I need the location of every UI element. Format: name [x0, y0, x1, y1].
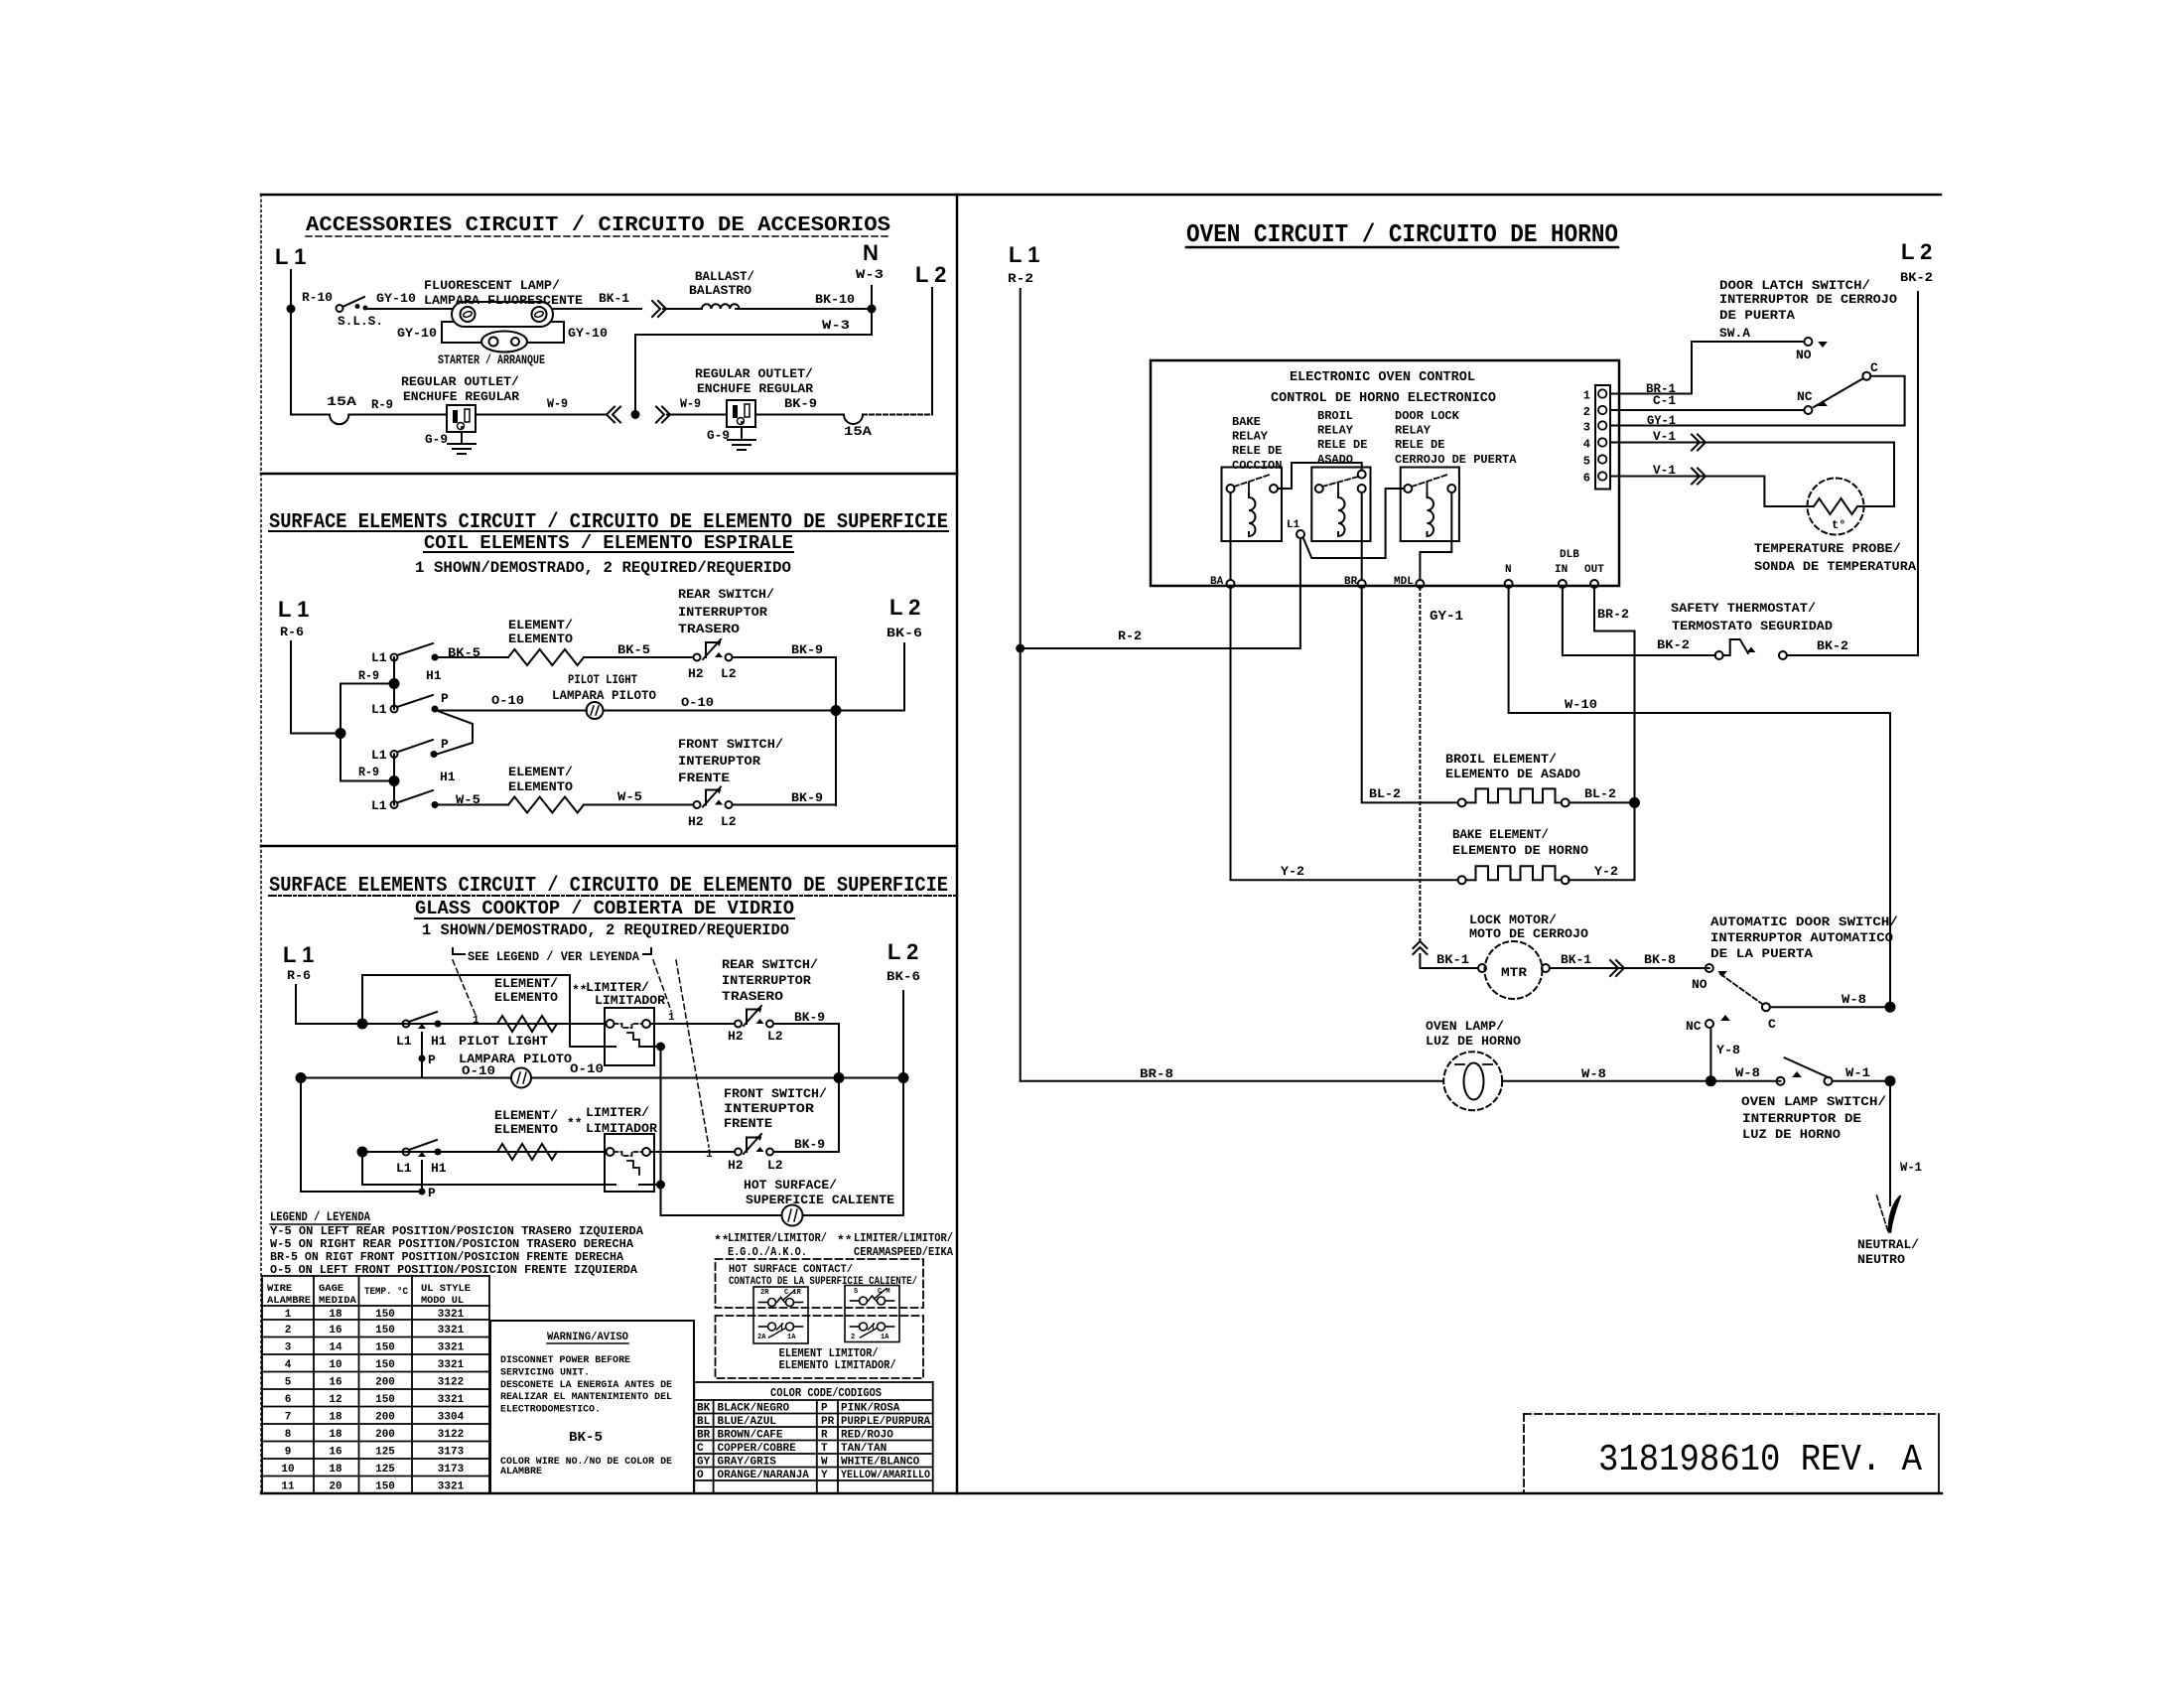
- frame bottom border: [261, 1492, 1942, 1495]
- svg-text:INTERRUPTOR: INTERRUPTOR: [722, 973, 811, 988]
- svg-text:L2: L2: [721, 666, 737, 681]
- svg-text:3321: 3321: [438, 1309, 465, 1321]
- svg-text:CONTROL DE HORNO ELECTRONICO: CONTROL DE HORNO ELECTRONICO: [1271, 391, 1496, 406]
- svg-text:FLUORESCENT LAMP/: FLUORESCENT LAMP/: [424, 278, 560, 293]
- wire neutral drop: [1889, 1081, 1891, 1205]
- svg-text:BL-2: BL-2: [1369, 786, 1401, 801]
- wire broil element to BR-2 bus: [1570, 801, 1635, 803]
- element resistor front coil: [508, 797, 584, 813]
- svg-text:H1: H1: [431, 1034, 447, 1049]
- svg-text:L 2: L 2: [887, 939, 918, 964]
- door latch NO terminal: [1804, 338, 1812, 346]
- fuse 15A left: [330, 415, 348, 425]
- starter ellipse: [481, 332, 527, 352]
- svg-text:MTR: MTR: [1501, 965, 1527, 980]
- svg-text:7: 7: [285, 1411, 292, 1423]
- junction bus pilot box2: [831, 705, 842, 716]
- door latch NC terminal: [1804, 406, 1812, 414]
- svg-text:200: 200: [375, 1376, 395, 1388]
- svg-text:FRENTE: FRENTE: [724, 1116, 772, 1131]
- svg-text:L2: L2: [721, 814, 737, 829]
- svg-text:1: 1: [706, 1149, 713, 1161]
- svg-text:Y-2: Y-2: [1281, 864, 1304, 879]
- wire BR-1 pin1 to SW.A: [1610, 342, 1805, 394]
- svg-text:SEE LEGEND / VER LEYENDA: SEE LEGEND / VER LEYENDA: [468, 949, 639, 964]
- svg-text:GY-10: GY-10: [568, 326, 608, 341]
- svg-text:DLB: DLB: [1560, 549, 1579, 561]
- chevrons V-1 pin4: [1692, 435, 1700, 451]
- svg-text:TRASERO: TRASERO: [678, 622, 740, 636]
- wire C-1 pin2 to NC: [1610, 409, 1805, 411]
- svg-text:W-1: W-1: [1845, 1065, 1870, 1080]
- wire R-2 L1 to relay feed: [1021, 538, 1300, 648]
- junction limiter1 aux: [656, 1043, 665, 1052]
- wire L1 feed jog to door lock relay: [1303, 489, 1405, 558]
- junction switch upper: [389, 678, 400, 689]
- wire GY-1 dotted MDL to lock motor: [1419, 588, 1421, 941]
- svg-text:SONDA DE TEMPERATURA: SONDA DE TEMPERATURA: [1754, 559, 1916, 574]
- oven lamp: [1443, 1052, 1502, 1110]
- svg-text:L1: L1: [396, 1034, 412, 1049]
- svg-text:L 2: L 2: [1901, 239, 1932, 264]
- wire element2 to front switch: [584, 804, 693, 806]
- wire R-9 lower: [341, 734, 394, 781]
- title underline: [306, 235, 890, 237]
- svg-text:20: 20: [329, 1480, 341, 1492]
- wire V-1 pin6 to probe: [1610, 477, 1813, 507]
- svg-text:REGULAR OUTLET/: REGULAR OUTLET/: [401, 374, 519, 389]
- front switch symbol box2: [694, 801, 701, 808]
- switch1 glass L1-H1: [403, 1021, 410, 1028]
- svg-text:DE PUERTA: DE PUERTA: [1719, 308, 1795, 323]
- wire L2 drop box1: [931, 288, 933, 415]
- svg-text:10: 10: [329, 1359, 341, 1371]
- svg-text:ELECTRONIC OVEN CONTROL: ELECTRONIC OVEN CONTROL: [1290, 370, 1475, 385]
- wire limiter2 to front switch: [650, 1151, 735, 1153]
- svg-text:L1: L1: [371, 650, 387, 665]
- svg-text:GLASS COOKTOP / COBIERTA DE VI: GLASS COOKTOP / COBIERTA DE VIDRIO: [415, 898, 794, 919]
- svg-text:COCCION: COCCION: [1232, 459, 1282, 473]
- frame center divider: [956, 195, 959, 1493]
- svg-text:3: 3: [1583, 421, 1590, 435]
- wire probe right drop: [1858, 443, 1894, 507]
- svg-text:18: 18: [329, 1429, 342, 1441]
- electronic oven control box: [1151, 360, 1619, 586]
- svg-text:BAKE ELEMENT/: BAKE ELEMENT/: [1452, 827, 1549, 842]
- rear switch symbol box3: [735, 1021, 742, 1028]
- svg-text:R-9: R-9: [358, 765, 379, 779]
- svg-text:12: 12: [329, 1394, 341, 1406]
- svg-text:INTERRUPTOR AUTOMATICO: INTERRUPTOR AUTOMATICO: [1710, 930, 1893, 945]
- switch L1-H1 rear (coil): [391, 654, 398, 661]
- svg-text:BK-6: BK-6: [887, 626, 922, 640]
- svg-text:2R: 2R: [760, 1289, 769, 1297]
- limiter 2 box: [605, 1134, 654, 1192]
- svg-text:P: P: [441, 691, 449, 706]
- svg-text:INTERUPTOR: INTERUPTOR: [678, 754, 760, 769]
- hot surface contact dashed box: [716, 1259, 924, 1308]
- svg-text:18: 18: [329, 1411, 342, 1423]
- element limitor contact right: [851, 1326, 860, 1328]
- svg-text:WIRE: WIRE: [267, 1283, 292, 1295]
- wire gauge table: [262, 1275, 489, 1277]
- svg-text:R-9: R-9: [371, 397, 393, 412]
- svg-text:DISCONNET POWER BEFORE: DISCONNET POWER BEFORE: [500, 1354, 630, 1366]
- svg-text:W-9: W-9: [547, 396, 568, 411]
- wire pilot junction to L2 drop: [836, 710, 904, 712]
- wire chevron to ballast: [663, 308, 697, 310]
- svg-text:18: 18: [329, 1309, 342, 1321]
- svg-text:ELEMENTO DE HORNO: ELEMENTO DE HORNO: [1452, 843, 1588, 858]
- svg-text:BALLAST/: BALLAST/: [695, 269, 754, 284]
- limiter 1 contacts: [607, 1020, 614, 1028]
- svg-text:125: 125: [375, 1446, 395, 1458]
- svg-text:GY-10: GY-10: [376, 291, 416, 306]
- svg-text:C: C: [1870, 360, 1878, 375]
- junction L1 center box2: [336, 728, 346, 739]
- wire ballast to N: [736, 308, 872, 310]
- svg-text:6: 6: [285, 1394, 292, 1406]
- box divider accessories/coil: [261, 473, 957, 476]
- wire V-1 pin4 to probe: [1610, 442, 1894, 444]
- svg-text:ELEMENT/: ELEMENT/: [494, 1108, 558, 1123]
- element resistor rear coil: [508, 649, 584, 665]
- subtitle underline: [424, 551, 793, 553]
- svg-text:W-9: W-9: [680, 396, 701, 411]
- svg-text:INTERRUPTOR DE CERROJO: INTERRUPTOR DE CERROJO: [1719, 292, 1897, 307]
- svg-text:8: 8: [285, 1429, 292, 1441]
- chevrons V-1 pin6: [1692, 469, 1700, 485]
- svg-text:1A: 1A: [881, 1334, 889, 1341]
- svg-text:RELE DE: RELE DE: [1317, 438, 1367, 452]
- door lock relay contact: [1404, 485, 1412, 492]
- svg-text:BK-5: BK-5: [617, 642, 650, 657]
- svg-text:BK-10: BK-10: [815, 292, 855, 307]
- svg-text:3321: 3321: [438, 1341, 465, 1353]
- svg-text:SAFETY THERMOSTAT/: SAFETY THERMOSTAT/: [1671, 601, 1816, 616]
- wire lower bus L1 to outlet: [291, 414, 330, 416]
- svg-text:BK-9: BK-9: [791, 642, 823, 657]
- switch1 wiper arrow to P: [418, 1024, 426, 1029]
- svg-text:ELEMENTO DE ASADO: ELEMENTO DE ASADO: [1445, 767, 1580, 781]
- svg-text:BAKE: BAKE: [1232, 415, 1261, 429]
- svg-text:BK-9: BK-9: [794, 1010, 825, 1025]
- terminal N: [1505, 580, 1513, 588]
- svg-text:15A: 15A: [327, 394, 356, 409]
- svg-text:HOT SURFACE CONTACT/: HOT SURFACE CONTACT/: [729, 1264, 853, 1276]
- pilot lamp box2: [587, 702, 604, 719]
- connector pins 1-6: [1598, 389, 1606, 397]
- svg-text:R-6: R-6: [280, 625, 304, 639]
- svg-text:L1: L1: [1287, 519, 1300, 531]
- svg-text:RELAY: RELAY: [1232, 430, 1269, 444]
- broil relay contact: [1315, 485, 1323, 492]
- junction W-1 bus: [1885, 1075, 1896, 1086]
- svg-text:S: S: [854, 1288, 858, 1296]
- svg-text:3173: 3173: [438, 1464, 465, 1476]
- aux bus limiter1-limiter2: [660, 1047, 662, 1185]
- limiter 1 box: [605, 1008, 654, 1065]
- svg-text:1A: 1A: [787, 1334, 796, 1341]
- hot surface lamp: [782, 1205, 803, 1226]
- bus right box2: [835, 657, 837, 805]
- svg-text:FRENTE: FRENTE: [678, 771, 730, 785]
- svg-text:BK-5: BK-5: [569, 1430, 603, 1446]
- svg-text:L 2: L 2: [915, 262, 946, 287]
- svg-text:FRONT SWITCH/: FRONT SWITCH/: [678, 737, 783, 752]
- wire BR-2 from OUT: [1594, 588, 1635, 800]
- wire bake-broil contact loop: [1278, 463, 1362, 489]
- fuse 15A right: [844, 415, 863, 425]
- wire Y-8 NC to lamp line: [1709, 1028, 1711, 1081]
- wire lamp to ballast: [553, 308, 641, 310]
- svg-text:**: **: [837, 1233, 853, 1248]
- svg-text:WHITE/BLANCO: WHITE/BLANCO: [841, 1457, 920, 1469]
- svg-text:BK-6: BK-6: [887, 969, 920, 984]
- wire L1 bus oven: [1020, 289, 1022, 1081]
- svg-text:R-9: R-9: [358, 668, 379, 683]
- svg-text:N: N: [863, 240, 879, 265]
- svg-text:COIL ELEMENTS / ELEMENTO ESPIR: COIL ELEMENTS / ELEMENTO ESPIRALE: [424, 532, 793, 554]
- svg-text:MOTO DE CERROJO: MOTO DE CERROJO: [1469, 926, 1588, 941]
- junction L2 box3: [898, 1072, 909, 1083]
- wire rear switch to bus box3: [773, 1024, 839, 1078]
- svg-text:PILOT LIGHT: PILOT LIGHT: [568, 672, 637, 687]
- svg-text:REALIZAR EL MANTENIMIENTO DEL: REALIZAR EL MANTENIMIENTO DEL: [500, 1391, 672, 1403]
- element resistor glass1: [497, 1016, 557, 1032]
- svg-text:INTERRUPTOR: INTERRUPTOR: [678, 605, 767, 620]
- junction loop2: [357, 1147, 368, 1158]
- svg-text:14: 14: [329, 1341, 342, 1353]
- svg-text:W-1: W-1: [1900, 1160, 1922, 1175]
- svg-text:E.G.O./A.K.O.: E.G.O./A.K.O.: [728, 1245, 807, 1259]
- svg-text:2A: 2A: [757, 1334, 766, 1341]
- svg-text:W-8: W-8: [1842, 992, 1866, 1007]
- door lock relay coil: [1428, 493, 1434, 536]
- svg-text:3321: 3321: [438, 1359, 465, 1371]
- svg-text:P: P: [428, 1053, 436, 1067]
- svg-text:REAR SWITCH/: REAR SWITCH/: [722, 957, 818, 972]
- pilot junction left box3: [296, 1072, 307, 1083]
- junction L1 box1: [287, 305, 296, 314]
- subtitle underline glass: [415, 917, 794, 919]
- svg-text:H2: H2: [728, 1029, 744, 1044]
- chevrons right of junction: [656, 407, 664, 423]
- svg-text:GY-1: GY-1: [1430, 609, 1463, 625]
- svg-text:ELEMENT/: ELEMENT/: [508, 618, 573, 633]
- wire aux to hot surface line: [661, 1185, 782, 1215]
- svg-text:C: C: [697, 1443, 704, 1455]
- svg-text:NC: NC: [1686, 1019, 1702, 1034]
- svg-text:BROIL ELEMENT/: BROIL ELEMENT/: [1445, 752, 1557, 767]
- bake element: [1458, 876, 1466, 884]
- svg-text:INTERRUPTOR DE: INTERRUPTOR DE: [1742, 1111, 1861, 1126]
- svg-text:UL STYLE: UL STYLE: [421, 1283, 471, 1295]
- svg-text:BK-9: BK-9: [794, 1137, 825, 1152]
- svg-text:3321: 3321: [438, 1480, 465, 1492]
- svg-text:150: 150: [375, 1309, 395, 1321]
- limiter1 aux contact: [639, 1046, 661, 1048]
- see legend right leader 1: [653, 960, 671, 1011]
- svg-text:Y-2: Y-2: [1594, 864, 1618, 879]
- svg-text:11: 11: [281, 1480, 295, 1492]
- wire H1 to element1: [439, 656, 508, 658]
- svg-text:L 1: L 1: [278, 597, 309, 622]
- junction limiter2 aux: [656, 1181, 665, 1190]
- svg-text:RELAY: RELAY: [1395, 424, 1432, 438]
- svg-text:OVEN LAMP SWITCH/: OVEN LAMP SWITCH/: [1741, 1094, 1886, 1109]
- wire L1 drop box3: [295, 985, 297, 1024]
- svg-text:W: W: [821, 1457, 828, 1469]
- svg-text:OUT: OUT: [1584, 564, 1604, 576]
- safety thermostat switch: [1715, 651, 1723, 659]
- svg-text:DE LA PUERTA: DE LA PUERTA: [1710, 946, 1813, 961]
- door latch blade: [1814, 378, 1863, 407]
- svg-text:G-9: G-9: [425, 432, 448, 447]
- lock motor MTR: [1485, 941, 1543, 999]
- loop2 under element2: [362, 1152, 615, 1185]
- svg-text:PURPLE/PURPURA: PURPLE/PURPURA: [841, 1416, 930, 1428]
- svg-text:NC: NC: [1797, 389, 1813, 404]
- svg-text:H1: H1: [440, 770, 456, 784]
- svg-text:MDL: MDL: [1394, 576, 1414, 588]
- wire chevron to motor: [1420, 954, 1478, 968]
- svg-text:3173: 3173: [438, 1446, 465, 1458]
- switch stack upper link: [393, 657, 395, 709]
- svg-text:YELLOW/AMARILLO: YELLOW/AMARILLO: [841, 1470, 930, 1481]
- wire C to GY-1: [1610, 376, 1905, 426]
- svg-text:WARNING/AVISO: WARNING/AVISO: [547, 1332, 628, 1343]
- svg-text:L 1: L 1: [283, 942, 314, 967]
- switch L1-P upper (pilot): [391, 706, 398, 713]
- svg-text:LAMPARA FLUORESCENTE: LAMPARA FLUORESCENTE: [424, 293, 583, 308]
- svg-text:L 2: L 2: [889, 595, 920, 620]
- fluorescent lamp body: [452, 302, 553, 327]
- wire element1 to rear switch: [584, 656, 693, 658]
- broil relay K2 box: [1311, 468, 1370, 542]
- limiter2 aux contact: [639, 1184, 661, 1186]
- svg-text:W-10: W-10: [1565, 697, 1597, 712]
- svg-text:3122: 3122: [438, 1376, 464, 1388]
- outlet 2: [727, 400, 755, 427]
- svg-text:C: C: [1768, 1017, 1776, 1032]
- svg-text:150: 150: [375, 1341, 395, 1353]
- svg-text:SURFACE ELEMENTS CIRCUIT / CIR: SURFACE ELEMENTS CIRCUIT / CIRCUITO DE E…: [269, 875, 948, 898]
- svg-text:L1: L1: [371, 702, 387, 717]
- svg-text:C 1R: C 1R: [784, 1289, 802, 1297]
- see legend left tick: [453, 948, 465, 954]
- svg-text:O: O: [697, 1470, 704, 1481]
- svg-text:BR-5 ON RIGT FRONT POSITION/PO: BR-5 ON RIGT FRONT POSITION/POSICION FRE…: [270, 1250, 624, 1264]
- svg-text:DESCONETE LA ENERGIA ANTES DE: DESCONETE LA ENERGIA ANTES DE: [500, 1379, 672, 1391]
- svg-text:Y-8: Y-8: [1716, 1043, 1740, 1057]
- svg-text:R-10: R-10: [302, 290, 333, 305]
- element limitor inner box right: [845, 1286, 899, 1342]
- ground outlet1: [448, 443, 476, 445]
- wire fuse to outlet1: [348, 414, 447, 416]
- switch L1-H1 front (coil): [391, 801, 398, 808]
- svg-text:BR-2: BR-2: [1597, 607, 1629, 622]
- junction Y-8 lamp line: [1706, 1075, 1716, 1086]
- svg-text:ENCHUFE REGULAR: ENCHUFE REGULAR: [403, 389, 519, 404]
- title underline dashdot: [269, 895, 955, 897]
- svg-text:R: R: [821, 1430, 828, 1442]
- svg-text:W-8: W-8: [1581, 1066, 1606, 1081]
- outlet1 ground stem: [461, 432, 463, 444]
- wire N drop: [871, 286, 873, 335]
- svg-text:ORANGE/NARANJA: ORANGE/NARANJA: [718, 1470, 810, 1481]
- svg-text:16: 16: [329, 1376, 341, 1388]
- svg-text:SERVICING UNIT.: SERVICING UNIT.: [500, 1366, 590, 1378]
- wire BR-2 bus down to bake: [1569, 802, 1635, 880]
- wire outlet2 to fuse2: [755, 414, 844, 416]
- junction switch lower: [389, 775, 400, 786]
- svg-text:LIMITER/LIMITOR/: LIMITER/LIMITOR/: [854, 1231, 953, 1245]
- svg-text:LIMITER/: LIMITER/: [586, 1105, 649, 1120]
- svg-text:3321: 3321: [438, 1394, 465, 1406]
- junction N/BK-10: [868, 305, 877, 314]
- svg-text:t°: t°: [1832, 518, 1845, 532]
- svg-text:N: N: [1505, 564, 1512, 576]
- svg-text:H2: H2: [688, 666, 704, 681]
- wire L1 feed box2: [291, 641, 341, 734]
- door latch C terminal: [1862, 372, 1870, 380]
- svg-text:150: 150: [375, 1359, 395, 1371]
- eoc connector strip: [1595, 385, 1610, 490]
- wire R-9 upper: [341, 684, 394, 734]
- bake relay coil: [1249, 493, 1256, 536]
- svg-text:COPPER/COBRE: COPPER/COBRE: [718, 1443, 797, 1455]
- element limitor contact left: [759, 1326, 768, 1328]
- switch S.L.S.: [337, 305, 343, 312]
- svg-text:BK-1: BK-1: [599, 291, 629, 306]
- wire pilot lamp to L2 junction: [604, 710, 837, 712]
- svg-text:L 1: L 1: [1009, 242, 1039, 267]
- chevrons BK-1: [1610, 960, 1618, 976]
- neutral arrow: [1877, 1196, 1888, 1230]
- svg-text:TEMP. °C: TEMP. °C: [364, 1286, 409, 1298]
- element limitor dashed box: [716, 1316, 924, 1378]
- oven lamp switch: [1777, 1077, 1785, 1085]
- svg-text:ENCHUFE REGULAR: ENCHUFE REGULAR: [697, 381, 813, 396]
- svg-text:BK-9: BK-9: [784, 396, 817, 411]
- svg-text:BROIL: BROIL: [1317, 409, 1353, 423]
- svg-text:RELE DE: RELE DE: [1232, 444, 1282, 458]
- svg-text:NEUTRAL/: NEUTRAL/: [1857, 1237, 1919, 1252]
- svg-text:**: **: [567, 1116, 583, 1131]
- wire front switch to bus box3: [773, 1078, 839, 1153]
- wire motor to chevrons: [1550, 967, 1709, 969]
- wire IN pin to thermostat: [1563, 588, 1715, 655]
- title underline solid: [269, 530, 948, 532]
- svg-text:ELEMENTO: ELEMENTO: [508, 632, 573, 646]
- outlet2 ground stem: [741, 427, 743, 440]
- svg-text:ELEMENT/: ELEMENT/: [494, 976, 558, 991]
- svg-text:W-5: W-5: [617, 789, 642, 804]
- svg-text:3304: 3304: [438, 1411, 465, 1423]
- svg-text:LIMITER/LIMITOR/: LIMITER/LIMITOR/: [728, 1231, 827, 1245]
- wire W-8 to bus: [1770, 1006, 1890, 1008]
- svg-text:DOOR LATCH SWITCH/: DOOR LATCH SWITCH/: [1719, 278, 1870, 293]
- svg-text:BA: BA: [1210, 576, 1224, 588]
- wire W-3 return: [635, 335, 872, 410]
- wire L2 bus oven: [1917, 292, 1919, 655]
- svg-text:2: 2: [851, 1334, 855, 1341]
- svg-text:4: 4: [1583, 438, 1590, 452]
- svg-text:BR: BR: [1344, 576, 1358, 588]
- svg-text:LUZ DE HORNO: LUZ DE HORNO: [1426, 1034, 1521, 1049]
- svg-text:ELEMENTO LIMITADOR/: ELEMENTO LIMITADOR/: [779, 1358, 896, 1372]
